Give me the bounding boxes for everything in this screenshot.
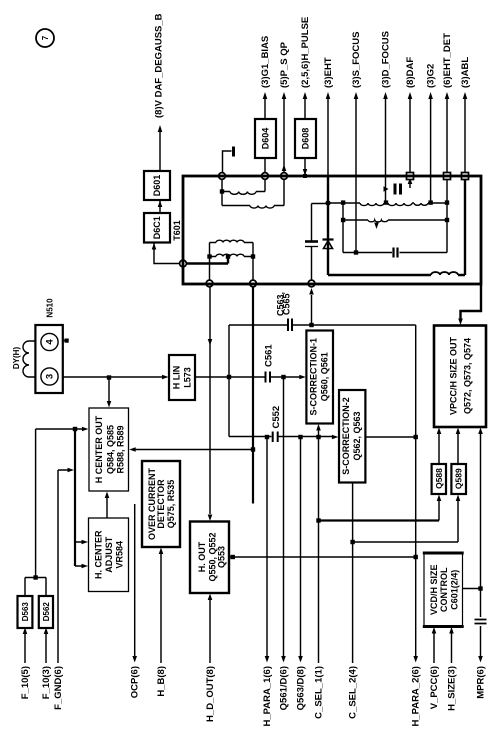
- wire P_S QP output column: [283, 97, 285, 173]
- svg-text:S-CORRECTION-1: S-CORRECTION-1: [309, 338, 319, 416]
- arrowhead Q589 into VPCC: [456, 428, 461, 435]
- wire flyback to H.OUT px210: [209, 287, 211, 514]
- junction dot winding row at EHT_DET: [445, 200, 449, 204]
- wire ABL column (above bus): [464, 97, 466, 173]
- arrowhead H CENTER ADJUST up into H CENTER OUT: [105, 492, 110, 499]
- svg-text:Q561/D(6): Q561/D(6): [279, 666, 290, 710]
- terminator square yoke pin4: [65, 339, 69, 343]
- svg-text:VCD/H SIZE: VCD/H SIZE: [429, 564, 439, 615]
- wire VCD right pin to MPR: [463, 588, 481, 590]
- arrowhead into S-CORR-1 bottom: [316, 424, 321, 431]
- arrowhead OCP output: [132, 656, 137, 663]
- wire S_FOCUS column: [355, 97, 357, 253]
- junction dot winding row at G2: [428, 200, 432, 204]
- winding W1 flyback upper-left: [222, 180, 265, 192]
- wire C_SEL_1 column: [318, 428, 320, 663]
- wire D_FOCUS column: [385, 97, 387, 201]
- svg-text:D6C1: D6C1: [152, 216, 162, 239]
- wire H CENTER ADJUST input stubs: [75, 542, 84, 566]
- flyback transformer T601 outline: [183, 176, 481, 284]
- bottom row275 scallops: [431, 272, 458, 275]
- junction dot row557 px415.7: [414, 555, 418, 559]
- bold px75 feeder to H CENTER ADJUST: [74, 429, 76, 566]
- lower-left row1 scallops: [216, 240, 244, 242]
- svg-text:H_SIZE(3): H_SIZE(3): [447, 666, 458, 711]
- junction dot winding row2 right: [251, 254, 255, 258]
- arrowhead into VPCC top: [458, 319, 463, 326]
- svg-text:(2,5,6)H_PULSE: (2,5,6)H_PULSE: [300, 17, 311, 88]
- node circle flyback bottom edge px311: [308, 280, 315, 287]
- flyback W2 scallops: [250, 206, 274, 209]
- svg-text:N510: N510: [46, 298, 55, 318]
- wire EHT output column (above bus): [327, 97, 329, 175]
- arrowhead into H LIN: [162, 375, 169, 380]
- arrowhead V_PCC into VCD: [432, 627, 437, 634]
- arrowhead into Q588 bottom: [437, 495, 442, 502]
- wire yoke pin3 to H LIN: [58, 376, 164, 378]
- junction dot row220 right: [445, 218, 449, 222]
- svg-text:F_10(3): F_10(3): [41, 666, 52, 699]
- lower-left row2 scallops: [216, 254, 244, 256]
- svg-text:V_PCC(6): V_PCC(6): [429, 666, 440, 709]
- diode box D562: [39, 596, 53, 628]
- svg-text:(3)ABL: (3)ABL: [460, 57, 471, 88]
- damper diode triangle: [324, 241, 333, 249]
- svg-text:DY(H): DY(H): [12, 347, 21, 370]
- box Q588: [432, 464, 446, 494]
- svg-text:C_SEL_2(4): C_SEL_2(4): [348, 666, 359, 719]
- svg-text:(6)EHT_DET: (6)EHT_DET: [442, 33, 453, 88]
- focus cap plates row252.5: [394, 248, 398, 258]
- arrowhead retrace branch up to circle: [309, 288, 314, 295]
- diode box D601: [144, 171, 170, 200]
- svg-text:7: 7: [41, 35, 50, 40]
- arrowhead DAF stub up: [408, 178, 413, 185]
- junction dot D608 at bus: [303, 174, 307, 178]
- junction dot winding row px343: [341, 200, 345, 204]
- wire Q563/D column: [300, 437, 302, 658]
- wire row py325 with C563/C565: [229, 324, 416, 326]
- junction dot winding row left: [325, 200, 330, 205]
- svg-text:D601: D601: [152, 175, 162, 197]
- wire D601 to D6C1 link: [159, 200, 161, 213]
- svg-text:H_PARA_1(6): H_PARA_1(6): [262, 666, 273, 727]
- node circle on flyback bus at D604: [262, 173, 269, 180]
- C563/C565 cap plates: [288, 319, 292, 332]
- junction dot bridge py577.5: [33, 575, 37, 579]
- MPR line cap plates: [475, 620, 487, 624]
- wire F_10(3) column: [45, 633, 47, 663]
- block S-CORRECTION-1: [306, 331, 333, 424]
- svg-text:C552: C552: [271, 406, 282, 429]
- wire G2 column: [430, 97, 432, 201]
- svg-text:D562: D562: [42, 602, 51, 622]
- arrowhead D601 from D6C1: [158, 201, 163, 208]
- arrowhead F_10(3) into D562: [44, 628, 49, 635]
- arrowhead F_10(5) into D563: [23, 628, 28, 635]
- junction dot MPR py588.5: [478, 586, 482, 590]
- arrowhead H_SIZE into VCD: [449, 627, 454, 634]
- block H LIN L573: [169, 355, 195, 400]
- svg-text:(3)G1_BIAS: (3)G1_BIAS: [260, 36, 271, 88]
- junction dot row449.5 px253: [251, 447, 255, 451]
- bold bottom winding row py275: [328, 274, 465, 276]
- svg-text:Q562, Q563: Q562, Q563: [352, 411, 362, 460]
- note circle 7: [36, 29, 54, 47]
- svg-text:MPR(6): MPR(6): [476, 666, 487, 699]
- spark gap arrow: [384, 186, 389, 191]
- svg-text:H. OUT: H. OUT: [197, 541, 207, 572]
- arrowhead into S-CORRECTION-1: [299, 375, 306, 380]
- block H OUT: [190, 522, 229, 594]
- winding row202 scallops A: [360, 203, 384, 206]
- arrowhead into H CENTER OUT left py429: [82, 427, 89, 432]
- block H CENTER OUT: [89, 408, 129, 491]
- damper diode cathode bar: [323, 238, 334, 240]
- T-stub bar: [232, 147, 235, 157]
- arrowhead G1_BIAS output: [263, 92, 268, 99]
- yoke pin circle 4: [41, 333, 58, 350]
- arrowhead into H CENTER OUT top: [107, 401, 112, 408]
- wire MPR column: [480, 433, 482, 658]
- wire Q561/D column: [283, 377, 285, 658]
- node open circle flyback left edge: [180, 260, 187, 267]
- focus pot row py220: [343, 219, 447, 221]
- wire DAF column: [409, 97, 411, 188]
- svg-text:H_D_OUT(8): H_D_OUT(8): [205, 666, 216, 722]
- wire H_B column: [160, 552, 162, 663]
- wire Q589 links: [457, 433, 459, 543]
- arrowhead into D6C1 bottom: [152, 243, 157, 250]
- svg-text:F_10(5): F_10(5): [20, 666, 31, 699]
- svg-text:Q584, Q585: Q584, Q585: [106, 425, 116, 474]
- arrowhead Q561/D output: [281, 656, 286, 663]
- node circle on flyback bus at P_S QP: [281, 173, 288, 180]
- focus pot wiper arrow: [374, 223, 379, 230]
- svg-text:(3)G2: (3)G2: [426, 64, 437, 88]
- svg-text:ADJUST: ADJUST: [104, 536, 114, 573]
- arrowhead ABL output: [463, 92, 468, 99]
- arrowhead D_FOCUS output: [383, 92, 388, 99]
- bold wire flyback corner down to VPCC top: [461, 285, 482, 320]
- node circle on flyback bus at T-stub: [219, 173, 226, 180]
- junction dot row377 px229: [227, 375, 231, 379]
- svg-text:H CENTER OUT: H CENTER OUT: [94, 415, 104, 483]
- wire H_D_OUT column: [209, 598, 211, 664]
- retrace cap plate thin: [305, 246, 318, 248]
- wire D6C1 to flyback pin: [154, 243, 180, 264]
- arrowhead F_GND into px75 line: [68, 468, 75, 473]
- flyback W1 scallops: [230, 192, 256, 195]
- svg-text:(3)D_FOCUS: (3)D_FOCUS: [381, 31, 392, 88]
- wire F_GND column: [58, 470, 69, 663]
- wire row py449.5 to H CENTER OUT: [134, 449, 253, 451]
- diode box D604: [255, 119, 276, 158]
- wire G1_BIAS output column: [264, 97, 266, 173]
- wire row py437 with C552: [229, 436, 416, 439]
- svg-text:H_PARA_2(6): H_PARA_2(6): [411, 666, 422, 727]
- svg-text:L573: L573: [183, 367, 193, 388]
- bold px253 vertical below flyback: [252, 287, 254, 504]
- bold branch flyback left circle to lower winding row2: [187, 258, 228, 264]
- junction dot row377 px283.5: [281, 375, 285, 379]
- svg-text:C565: C565: [282, 293, 292, 315]
- svg-text:H. CENTER: H. CENTER: [94, 530, 104, 579]
- wire row py542 to Q589: [353, 541, 458, 543]
- svg-text:(8)DAF: (8)DAF: [405, 57, 416, 88]
- arrowhead P_S QP output: [282, 92, 287, 99]
- bold EHT branch with damper diode down to bottom winding: [327, 177, 329, 275]
- wire F_10(5) column: [24, 633, 26, 663]
- yoke winding arcs: [23, 341, 29, 377]
- svg-text:(5)P_S QP: (5)P_S QP: [279, 41, 290, 88]
- arrowhead into H CENTER OUT right py449.5: [129, 447, 136, 452]
- vertical px343 tap: [342, 203, 344, 253]
- wire Q588 links: [438, 433, 440, 521]
- wire H LIN output row py377: [195, 376, 302, 378]
- wire C563 branch from flyback circle: [311, 295, 313, 325]
- svg-text:S-CORRECTION-2: S-CORRECTION-2: [341, 397, 351, 475]
- bold row py520.5 to Q588: [319, 519, 440, 521]
- yoke pin circle 3: [41, 368, 58, 385]
- svg-text:R588, R589: R588, R589: [116, 425, 126, 473]
- arrowhead into S-CORRECTION-2: [332, 435, 339, 440]
- wire V DAF_DEGAUSS_B output: [159, 130, 161, 171]
- arrowhead D608 down to bus: [303, 169, 308, 176]
- arrowhead into H.OUT bottom: [208, 594, 213, 601]
- arrowhead into H CENTER ADJUST left py566: [82, 564, 89, 569]
- svg-text:Q563/D(8): Q563/D(8): [296, 666, 307, 710]
- wire H_PARA_1 column: [266, 437, 268, 658]
- arrowhead mid H.OUT feed down: [208, 339, 213, 346]
- svg-text:H_B(8): H_B(8): [156, 666, 167, 697]
- junction dot row542: [350, 540, 354, 544]
- arrowhead H_PARA_2 output: [413, 656, 418, 663]
- junction dot row437 at H_PARA_1: [265, 435, 269, 439]
- yoke pin4 stub: [58, 340, 66, 342]
- block VCD/H SIZE CONTROL: [424, 553, 463, 627]
- svg-text:VPCC/H SIZE OUT: VPCC/H SIZE OUT: [449, 336, 459, 415]
- lower-left winding loop verticals: [210, 243, 254, 281]
- svg-text:Q575, R535: Q575, R535: [166, 480, 176, 529]
- block OVER CURRENT DETECTOR: [142, 461, 180, 547]
- wire D563/D562 bridge: [25, 578, 46, 597]
- svg-text:VR584: VR584: [115, 541, 125, 569]
- lower-left winding row1 py242.5: [210, 242, 254, 244]
- block S-CORRECTION-2: [339, 390, 365, 483]
- retrace cap plate bold: [305, 240, 318, 243]
- junction dot row220 left: [341, 218, 345, 222]
- svg-text:CONTROL: CONTROL: [439, 567, 449, 612]
- svg-text:Q589: Q589: [454, 468, 464, 489]
- svg-text:OCP(6): OCP(6): [130, 666, 141, 698]
- svg-text:4: 4: [45, 339, 56, 345]
- yoke connector box DY(H): [35, 325, 62, 393]
- svg-text:Q560, Q561: Q560, Q561: [320, 352, 330, 401]
- focus pot row scallops: [368, 220, 388, 222]
- svg-text:C561: C561: [264, 344, 275, 367]
- diode box D6C1: [144, 213, 170, 243]
- svg-text:(3)EHT: (3)EHT: [323, 57, 334, 88]
- arrowhead into OVER CURRENT DETECTOR bottom: [159, 548, 164, 555]
- node square on bus at ABL: [462, 173, 469, 180]
- svg-text:F_GND(6): F_GND(6): [53, 666, 64, 710]
- pin square H.OUT right: [231, 555, 235, 559]
- arrowhead P_S direction mark: [282, 165, 287, 172]
- yoke winding stubs: [29, 341, 41, 377]
- arrowhead MPR output: [478, 656, 483, 663]
- junction dot winding row2 left: [207, 254, 211, 258]
- block H CENTER ADJUST: [89, 518, 129, 592]
- svg-text:C_SEL_1(1): C_SEL_1(1): [314, 666, 325, 719]
- svg-text:DETECTOR: DETECTOR: [156, 479, 166, 529]
- C552 cap plates: [273, 432, 278, 443]
- arrowhead MPR up into VPCC: [478, 428, 483, 435]
- arrowhead S_FOCUS output: [354, 92, 359, 99]
- junction dot row437 at Q563/D: [298, 435, 302, 439]
- winding row py202 inside flyback: [328, 202, 447, 204]
- arrowhead Q588 into VPCC: [437, 428, 442, 435]
- diode box D608: [295, 119, 316, 158]
- node circle flyback bottom edge px253: [250, 280, 257, 287]
- arrowhead H_PARA_1 output: [265, 656, 270, 663]
- svg-text:D563: D563: [21, 602, 30, 622]
- arrowhead into H CENTER ADJUST left py542: [82, 540, 89, 545]
- arrowhead Q563/D output: [298, 656, 303, 663]
- diode box D563: [18, 596, 33, 628]
- box Q589: [451, 464, 466, 494]
- svg-text:Q588: Q588: [434, 468, 444, 489]
- junction dot yoke row to H CENTER OUT: [107, 375, 111, 379]
- svg-text:(8)V DAF_DEGAUSS_B: (8)V DAF_DEGAUSS_B: [154, 13, 165, 118]
- wire F diode bridge to H CENTER OUT row py429: [36, 429, 84, 578]
- wire px229 vertical: [228, 325, 230, 437]
- svg-text:D608: D608: [301, 128, 311, 150]
- arrowhead EHT output: [326, 92, 331, 99]
- wire H CENTER ADJUST to H CENTER OUT: [106, 497, 108, 519]
- wire H_PARA_2 column px415.7: [415, 325, 417, 658]
- bold winding riser px465 to bus: [464, 178, 466, 275]
- arrowhead into Q589 bottom: [456, 495, 461, 502]
- svg-text:H LIN: H LIN: [172, 366, 182, 390]
- node square on bus at EHT_DET: [444, 173, 451, 180]
- junction dot row520.5: [316, 518, 320, 522]
- junction dot W1 square: [220, 189, 224, 193]
- arrowhead DAF output: [408, 92, 413, 99]
- wire T-stub above flyback: [223, 151, 232, 173]
- svg-text:Q553: Q553: [217, 546, 227, 568]
- svg-text:T601: T601: [172, 220, 182, 241]
- junction dot winding row at D_FOCUS: [384, 200, 388, 204]
- C561 cap plates: [266, 372, 271, 383]
- svg-text:C601(2/4): C601(2/4): [450, 570, 460, 610]
- wire EHT_DET column: [446, 97, 448, 253]
- junction dot winding row2 mid: [226, 254, 230, 258]
- arrowhead EHT_DET output: [445, 92, 450, 99]
- junction dot row325 px311.5: [309, 323, 313, 327]
- svg-text:Q572, Q573, Q574: Q572, Q573, Q574: [463, 338, 473, 414]
- node square on bus at DAF: [407, 173, 414, 180]
- arrowhead into H.OUT top: [208, 515, 213, 522]
- retrace cap branch: [312, 204, 329, 281]
- winding W2 flyback upper-left: [222, 180, 284, 206]
- junction dot px75 py429: [73, 427, 77, 431]
- winding row202 scallops B: [388, 203, 412, 206]
- arrowhead H_PULSE output: [303, 92, 308, 99]
- block VPCC/H SIZE OUT: [434, 326, 486, 428]
- svg-text:3: 3: [45, 374, 56, 379]
- wire OCP column: [134, 504, 136, 658]
- lower-left winding row2 py256.5: [210, 256, 254, 258]
- focus cap row py252.5: [343, 252, 447, 254]
- arrowhead G2 output: [428, 92, 433, 99]
- wire VCD bottom pins: [434, 632, 452, 663]
- junction dot S_FOCUS cap row: [354, 250, 358, 254]
- arrowhead DEGAUSS output: [158, 125, 163, 132]
- wire H_PULSE output column: [304, 97, 306, 176]
- wire drop to H CENTER OUT top: [108, 378, 110, 403]
- wire row py557 H.OUT to H_PARA_2: [229, 556, 416, 558]
- spark gap plates on D_FOCUS: [395, 184, 401, 195]
- junction dot row437 at H_PARA_2: [414, 435, 418, 439]
- svg-text:(3)S_FOCUS: (3)S_FOCUS: [351, 32, 362, 88]
- svg-text:D604: D604: [261, 128, 271, 150]
- junction dot row437 at C_SEL_1: [316, 435, 320, 439]
- wire C_SEL_2 column: [352, 483, 354, 664]
- node circle flyback bottom edge px209: [206, 280, 213, 287]
- winding row202 scallops C: [414, 203, 428, 205]
